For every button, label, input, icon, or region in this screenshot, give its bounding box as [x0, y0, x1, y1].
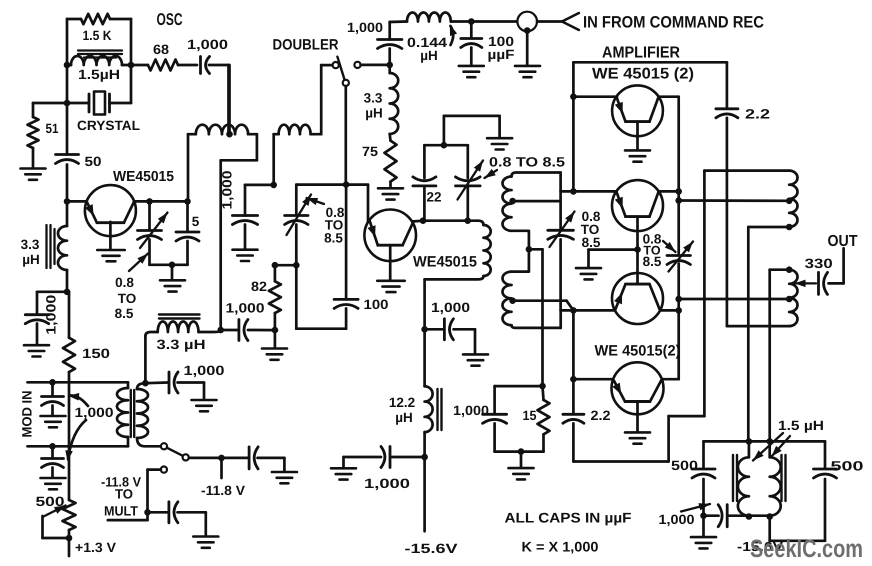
- transistor T5 WE45015 flipped: [612, 273, 663, 324]
- svg-text:3.3: 3.3: [364, 91, 383, 106]
- wire VC4 bottom join: [561, 310, 574, 328]
- watermark SeekIC.com: [750, 535, 863, 563]
- wire Q2 collector row: [423, 219, 479, 222]
- arrow VC4: [550, 212, 575, 248]
- label 500 left: [671, 458, 698, 473]
- capacitor C6 modin2: [42, 446, 64, 477]
- node spine A: [64, 289, 71, 296]
- label OSC: [157, 10, 183, 29]
- arrow leader T2b: [772, 436, 791, 457]
- ground G7 C15: [463, 354, 488, 365]
- wire T6 emitter: [573, 378, 613, 381]
- svg-text:1,000: 1,000: [75, 405, 114, 420]
- wire T1 up to L3: [145, 332, 157, 383]
- arrow VC1: [140, 213, 168, 249]
- wire MOD upper: [28, 381, 129, 384]
- wire T5 emitter: [573, 309, 615, 312]
- wire L10 bot lead: [727, 325, 789, 328]
- switch S1 contact1: [161, 443, 167, 449]
- node T3 emitter: [570, 93, 577, 100]
- arrow VC3: [458, 161, 484, 200]
- svg-text:1,000: 1,000: [347, 20, 383, 35]
- wire branch1 to tap: [679, 199, 790, 202]
- svg-text:WE45015: WE45015: [113, 169, 174, 185]
- ground G20 C6: [41, 478, 66, 489]
- svg-text:µµF: µµF: [488, 47, 515, 62]
- node MOD low: [49, 443, 56, 450]
- ground G22 C4: [24, 345, 49, 356]
- ground G5: [262, 349, 287, 360]
- capacitor C24 100uuF: [461, 22, 482, 66]
- label 1,000 C16: [453, 403, 489, 418]
- label K=X1000: [522, 539, 599, 555]
- svg-text:1.5µH: 1.5µH: [78, 67, 120, 82]
- wire Q2 base gnd: [389, 245, 392, 280]
- node C20 gnd: [700, 512, 707, 519]
- arrow VC2: [287, 195, 312, 236]
- wire Q1 collector: [134, 200, 188, 203]
- svg-text:2.2: 2.2: [591, 408, 611, 423]
- svg-text:8.5: 8.5: [643, 254, 662, 269]
- capacitor C7 1000: [145, 372, 204, 400]
- wire osc loop left: [66, 19, 69, 103]
- svg-text:µH: µH: [365, 106, 383, 121]
- wire VC2 loop down: [296, 265, 346, 329]
- svg-text:1,000: 1,000: [220, 171, 235, 210]
- wire to R7: [275, 265, 296, 281]
- ground G2 Q1: [97, 250, 125, 261]
- svg-text:OSC: OSC: [157, 10, 183, 29]
- node L8 tap2: [509, 297, 516, 304]
- wire R2 to gnd: [32, 148, 35, 168]
- label 51: [46, 121, 59, 136]
- ground G23: [331, 457, 356, 480]
- label 1.5uH T2: [778, 418, 824, 433]
- svg-text:µH: µH: [22, 252, 40, 267]
- svg-text:WE 45015(2): WE 45015(2): [595, 343, 681, 360]
- node R7 top: [272, 262, 279, 269]
- svg-text:1.5 K: 1.5 K: [83, 28, 112, 43]
- node T6 emitter: [570, 376, 577, 383]
- node osc A: [64, 62, 71, 69]
- label -11.8V TO MULT: [101, 475, 141, 519]
- inductor L2 3.3uH: [58, 201, 67, 291]
- wire L4 tap up: [228, 65, 231, 134]
- capacitor C17 2.2: [563, 414, 584, 423]
- wire tank down: [423, 279, 426, 329]
- label 75: [362, 144, 379, 159]
- ground G4 C10: [233, 250, 258, 261]
- wire branch2 to tap: [679, 298, 790, 301]
- svg-text:AMPLIFIER: AMPLIFIER: [602, 45, 680, 62]
- wire Q2 collector lead: [414, 219, 424, 222]
- wire C12 gnd stem: [274, 330, 277, 348]
- svg-text:8.5: 8.5: [324, 231, 343, 246]
- wire switch B stem: [344, 86, 347, 185]
- wire T6 collector: [662, 378, 679, 381]
- arrow leader C20: [681, 503, 710, 511]
- svg-text:1,000: 1,000: [431, 300, 470, 315]
- ground G19 C5: [41, 416, 66, 427]
- node Q1 col B: [184, 198, 191, 205]
- inductor L6 3.3uH: [390, 65, 399, 134]
- inductor L11 12.2uH: [425, 329, 433, 457]
- label WE45015 Q1: [113, 169, 174, 185]
- arrow leader T2a: [753, 433, 783, 461]
- node 22cap bottom: [464, 217, 471, 224]
- wire C20 gnd stem: [702, 516, 705, 537]
- svg-text:ALL CAPS IN µµF: ALL CAPS IN µµF: [505, 510, 632, 526]
- svg-text:75: 75: [362, 144, 379, 159]
- arrow leader mod cap1: [68, 393, 88, 406]
- capacitor C21 500 left: [692, 441, 715, 515]
- node T4 emitter: [570, 188, 577, 195]
- arrow leader VC2: [307, 198, 325, 205]
- wire tank gnd stem: [171, 265, 174, 280]
- ground G15 C9: [193, 537, 218, 548]
- resistor R3 68: [131, 60, 197, 71]
- wire OUT stub: [829, 248, 844, 283]
- wire bias gnd stem: [520, 452, 523, 468]
- connector J1 circle: [517, 12, 537, 32]
- svg-text:OUT: OUT: [828, 233, 858, 250]
- transistor Q1 WE45015: [85, 185, 136, 236]
- arrow VC5: [669, 242, 694, 272]
- svg-text:22: 22: [427, 190, 442, 205]
- inductor L1 1.5uH: [67, 56, 131, 65]
- svg-text:-11.8 V: -11.8 V: [201, 483, 245, 498]
- node osc B: [128, 62, 135, 69]
- wire L5 left down: [272, 134, 275, 185]
- svg-text:WE 45015 (2): WE 45015 (2): [592, 66, 694, 83]
- label 150: [82, 346, 110, 361]
- node MOD up: [49, 379, 56, 386]
- resistor R4 150: [63, 292, 75, 382]
- capacitor C12 1000: [221, 320, 275, 341]
- inductor L4: [188, 125, 257, 202]
- ground G9 Q2: [377, 281, 405, 292]
- transformer T1 core: [131, 390, 134, 437]
- wire S1 to node: [189, 457, 222, 460]
- svg-text:8.5: 8.5: [582, 235, 601, 250]
- svg-text:SeekIC.com: SeekIC.com: [750, 535, 863, 563]
- node L10 top: [786, 266, 793, 273]
- svg-text:0.8: 0.8: [115, 275, 134, 290]
- label 3.3uH L2: [21, 237, 40, 267]
- transformer T1 secondary: [137, 383, 161, 446]
- label 500 pot: [36, 494, 65, 509]
- inductor L8 lower: [503, 272, 561, 328]
- node C24 top: [468, 18, 475, 25]
- capacitor C2 1000: [201, 57, 229, 74]
- wire L5 right up: [320, 65, 323, 134]
- svg-text:IN FROM COMMAND REC: IN FROM COMMAND REC: [583, 14, 764, 32]
- node mid145: [441, 142, 448, 149]
- svg-text:1,000: 1,000: [187, 37, 228, 52]
- wire base gnd branch: [589, 250, 638, 268]
- svg-text:DOUBLER: DOUBLER: [273, 37, 339, 54]
- capacitor C16 1000: [483, 386, 507, 452]
- label -15.6V br: [737, 539, 783, 554]
- label 0.8 TO 8.5 VC1: [115, 275, 137, 321]
- svg-text:1.5 µH: 1.5 µH: [778, 418, 824, 433]
- resistor R2 51: [28, 117, 39, 148]
- wire interstage V3 top: [559, 173, 562, 229]
- switch S2 contact A: [333, 62, 339, 68]
- svg-text:MOD IN: MOD IN: [20, 391, 35, 438]
- svg-text:51: 51: [46, 121, 59, 136]
- crystal Y1: [67, 92, 131, 115]
- label -15.6V mid: [405, 541, 458, 556]
- node T1 sec top: [142, 380, 149, 387]
- svg-text:MULT: MULT: [104, 504, 139, 519]
- label 1,000 C7: [184, 363, 225, 378]
- wire T4 base: [636, 217, 639, 250]
- resistor R8 15: [538, 386, 550, 452]
- node Q2 col: [420, 217, 427, 224]
- label 0.8 TO 8.5 VC5: [643, 232, 662, 270]
- wire amp top: [573, 61, 727, 64]
- capacitor C19 330: [819, 272, 828, 294]
- svg-text:5: 5: [192, 214, 200, 229]
- inductor L9 top: [789, 171, 797, 227]
- ground G3 tank: [160, 280, 185, 291]
- label 2.2 C18: [745, 107, 770, 122]
- label AMPLIFIER: [602, 45, 680, 62]
- wire amp bottom loop: [573, 416, 704, 461]
- label 1.5uH: [78, 67, 120, 82]
- node T5 emitter: [570, 307, 577, 314]
- inductor core L2: [47, 225, 55, 268]
- label 1,000 mod: [75, 405, 114, 420]
- capacitor C4 1000: [25, 292, 67, 345]
- label 3.3uH L6: [364, 91, 383, 121]
- transistor T4 WE45015: [612, 180, 663, 231]
- resistor R1 1.5K: [67, 14, 131, 24]
- svg-text:15: 15: [523, 408, 537, 423]
- label 1,000 C20: [659, 512, 695, 527]
- node T2 topR: [766, 438, 773, 445]
- capacitor C13 100: [334, 185, 358, 329]
- variable capacitor VC3: [456, 145, 481, 221]
- transistor Q2 WE45015: [364, 210, 416, 262]
- label 100uuF: [488, 34, 515, 62]
- switch S2 contact C: [354, 62, 360, 68]
- label 5: [192, 214, 200, 229]
- inductor L7 tank: [425, 221, 491, 280]
- svg-text:3.3 µH: 3.3 µH: [157, 337, 206, 352]
- inductor L5: [274, 125, 322, 135]
- wire osc loop right: [130, 19, 133, 103]
- svg-text:TO: TO: [118, 291, 137, 306]
- wire up to gnd stub: [444, 116, 500, 145]
- wire T4 collector: [659, 190, 679, 193]
- wire L10 top lead: [770, 270, 790, 442]
- capacitor C8 to gnd: [222, 447, 285, 472]
- wire C2 down to tap: [227, 65, 230, 134]
- wire T5 collector: [660, 309, 679, 312]
- wire T2 top: [704, 440, 826, 443]
- node L9 tap: [786, 198, 793, 205]
- wire bias branch: [529, 249, 543, 386]
- wire C contact to node: [361, 64, 390, 67]
- node J1 bottom: [524, 27, 531, 34]
- arrow leader L12: [450, 25, 457, 46]
- transformer T2 core right: [782, 455, 786, 501]
- wire T3 collector: [659, 95, 679, 98]
- ground G16: [515, 66, 540, 77]
- wire bias top: [495, 385, 543, 388]
- svg-text:1,000: 1,000: [453, 403, 489, 418]
- arrow pot wiper: [43, 506, 70, 539]
- node L4 tap: [226, 131, 233, 138]
- label 1,000 C4 rotated: [44, 295, 59, 335]
- node Q1 base-node: [64, 198, 71, 205]
- wire J1 to arrow: [537, 20, 562, 23]
- svg-text:WE45015: WE45015: [413, 254, 477, 271]
- capacitor C15 1000: [425, 319, 475, 354]
- variable capacitor VC4: [548, 230, 574, 310]
- capacitor C11 1000: [378, 22, 408, 65]
- wire T3 base gnd: [636, 122, 639, 150]
- wire emitter row: [296, 183, 368, 186]
- svg-text:CRYSTAL: CRYSTAL: [77, 118, 140, 133]
- arrow leader VC5: [663, 241, 676, 252]
- switch S2 arm: [337, 57, 344, 80]
- switch S1 contact2: [183, 454, 189, 460]
- switch S1 contact3: [161, 467, 167, 473]
- variable capacitor VC1: [138, 201, 162, 264]
- wire T6 base gnd: [636, 402, 639, 432]
- svg-text:µH: µH: [395, 410, 413, 425]
- node pot bottom: [66, 530, 73, 556]
- wire to R2: [33, 103, 67, 117]
- potentiometer R5 500: [63, 500, 76, 530]
- label 12.2uH: [389, 395, 415, 425]
- label 22: [427, 190, 442, 205]
- capacitor C3 5: [176, 201, 199, 264]
- inductor L12 0.144uH: [407, 12, 517, 21]
- capacitor C1 50: [56, 103, 79, 201]
- wire L9 bot lead: [748, 227, 789, 441]
- svg-text:µH: µH: [420, 48, 438, 63]
- ground G21: [691, 537, 716, 548]
- wire L8 tap2: [513, 301, 574, 311]
- svg-text:500: 500: [36, 494, 65, 509]
- ground G12 T6: [625, 432, 650, 443]
- inductor L3 3.3uH: [158, 321, 221, 332]
- svg-text:+1.3 V: +1.3 V: [75, 540, 116, 555]
- svg-text:1,000: 1,000: [226, 301, 265, 316]
- node tank gnd: [169, 262, 176, 269]
- ground G8: [487, 138, 512, 149]
- node T5 col: [675, 307, 682, 314]
- node bias top: [539, 383, 546, 390]
- resistor R6 75: [385, 134, 397, 188]
- wire J1 gnd: [526, 31, 529, 65]
- label 50: [85, 154, 102, 169]
- capacitor C9 mult: [148, 502, 206, 536]
- transformer T2 left winding: [738, 441, 749, 515]
- inductor L10 bottom: [789, 270, 797, 326]
- ground G18 C7: [192, 400, 217, 411]
- node doubler top: [386, 62, 393, 69]
- label 1,000 C12: [226, 301, 265, 316]
- inductor L3 core: [159, 315, 200, 319]
- label WE45015 Q2: [413, 254, 477, 271]
- capacitor C14 22: [413, 145, 436, 221]
- label 15: [523, 408, 537, 423]
- node L8 tap: [509, 198, 516, 205]
- label WE 45015(2) bot: [595, 343, 681, 360]
- variable capacitor VC5: [667, 256, 690, 265]
- svg-text:68: 68: [153, 42, 170, 57]
- variable capacitor VC2: [285, 185, 308, 266]
- label 1,000 C2: [187, 37, 228, 52]
- svg-text:8.5: 8.5: [115, 306, 134, 321]
- svg-text:1,000: 1,000: [44, 295, 59, 335]
- wire Q1 base gnd: [109, 222, 112, 250]
- node Q1 col A: [146, 198, 153, 205]
- label 500 right: [831, 459, 864, 474]
- svg-text:500: 500: [831, 459, 864, 474]
- wire amp right rail: [677, 97, 680, 380]
- svg-text:330: 330: [805, 256, 833, 271]
- node mult: [144, 509, 151, 516]
- node L5 node: [270, 182, 277, 189]
- node osc C: [64, 100, 71, 107]
- wire Q2 emitter lead: [367, 185, 370, 222]
- capacitor C20 1000: [704, 505, 749, 527]
- node bias gnd: [518, 448, 525, 455]
- node L11 bottom: [421, 454, 428, 461]
- label 0.144uH: [407, 35, 448, 63]
- capacitor C22 500 right: [814, 441, 837, 540]
- label 100 C13: [364, 297, 389, 312]
- wire amp left rail top: [572, 62, 575, 191]
- label MOD IN rotated: [20, 391, 35, 438]
- node branch1: [675, 197, 682, 204]
- ground G13: [509, 468, 534, 479]
- label 2.2 C17: [591, 408, 611, 423]
- label 3.3uH L3: [157, 337, 206, 352]
- inductor L11 core: [438, 389, 442, 430]
- wire switch A lead: [321, 64, 332, 67]
- svg-text:500: 500: [671, 458, 698, 473]
- svg-text:3.3: 3.3: [21, 237, 40, 252]
- wire top coil lead: [704, 169, 789, 172]
- svg-text:82: 82: [251, 279, 267, 294]
- wire bias bottom: [495, 450, 544, 453]
- label CRYSTAL: [77, 118, 140, 133]
- label ALL CAPS: [505, 510, 632, 526]
- ground G10 T3: [625, 150, 650, 161]
- svg-text:150: 150: [82, 346, 110, 361]
- svg-text:1,000: 1,000: [184, 363, 225, 378]
- node C12 left: [217, 327, 224, 334]
- node T2 botL: [746, 513, 753, 520]
- wire node 145: [424, 144, 467, 147]
- wire T4 emitter: [613, 190, 617, 193]
- wire MOD lower: [28, 445, 129, 448]
- wire base Q1: [67, 200, 87, 203]
- wire -15.6 bottom: [770, 517, 825, 541]
- svg-text:100: 100: [364, 297, 389, 312]
- label 1.5K: [83, 28, 112, 43]
- switch S1 arm: [167, 448, 183, 456]
- node T2 topL: [746, 438, 753, 445]
- ground G17: [459, 66, 484, 77]
